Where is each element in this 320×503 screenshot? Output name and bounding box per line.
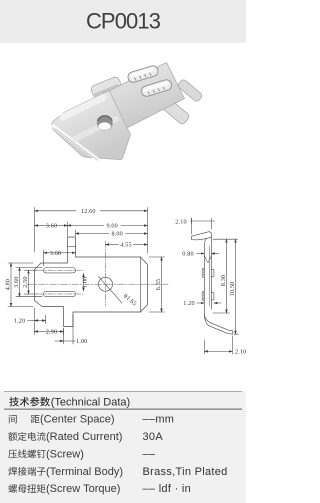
dim 3.60 slots outer (16, 267, 42, 269)
table row terminal body (8, 467, 17, 476)
svg-text:CP0013: CP0013 (86, 8, 161, 33)
dim 3.60 to top leg (35, 225, 44, 227)
svg-text:4.80: 4.80 (5, 279, 12, 290)
svg-text:(Technical Data): (Technical Data) (51, 397, 130, 409)
photo: rivet hole (97, 115, 112, 130)
side view: left emboss bump 1 (202, 268, 204, 278)
svg-text:(Screw Torque): (Screw Torque) (46, 483, 120, 495)
front view: lower emboss slot (44, 291, 76, 296)
photo: top bent leg tab (90, 76, 122, 98)
front view: lower slot centerline (39, 293, 83, 295)
side view: left emboss bump 2 (202, 291, 204, 301)
svg-text:1.20: 1.20 (14, 318, 25, 325)
photo: blade highlight streak (63, 98, 103, 118)
svg-text:(Center Space): (Center Space) (40, 414, 115, 426)
front view: hole (99, 277, 113, 291)
dim 4.80 body width (8, 262, 33, 264)
side view: right emboss bump 2 (211, 292, 214, 300)
dim 8.00 (76, 233, 110, 235)
front view: part outline (35, 237, 148, 327)
table row rated current (8, 432, 17, 441)
side view: right emboss bump 1 (211, 269, 214, 277)
svg-text:8.30: 8.30 (220, 275, 227, 286)
technical drawing (5, 208, 247, 356)
photo: terminal body (narrow mounting section) (98, 63, 185, 134)
side view: V transition mark (204, 256, 207, 263)
dim 2.90 leg offset (34, 308, 36, 335)
photo: PCB leg B (lower right stub) (160, 97, 191, 125)
side view: bent foot (bottom) (204, 309, 233, 334)
svg-text:(Rated Current): (Rated Current) (46, 431, 122, 443)
svg-text:1.00: 1.00 (76, 338, 87, 345)
side dim 2.10 bottom (204, 340, 206, 354)
svg-text:3.60: 3.60 (13, 276, 20, 287)
svg-text:––mm: ––mm (143, 414, 175, 426)
dim 9.00 (68, 225, 104, 227)
svg-text:8.00: 8.00 (111, 231, 122, 238)
dim 1.20 (45, 315, 47, 324)
product photo: tin-plated solder tab terminal (52, 63, 203, 161)
svg-text:2.10: 2.10 (175, 218, 186, 225)
side view: strip left edge (204, 239, 206, 309)
side view: strip inner line (208, 246, 210, 306)
front view: top leg bend line (68, 246, 76, 248)
svg-text:2.50: 2.50 (22, 276, 29, 287)
photo: bright sheared edge along tip (53, 126, 97, 159)
svg-text:(Terminal Body): (Terminal Body) (46, 466, 123, 478)
svg-text:–– ldf · in: –– ldf · in (143, 483, 192, 495)
svg-text:3.60: 3.60 (46, 223, 57, 230)
svg-text:Brass,Tin Plated: Brass,Tin Plated (143, 466, 228, 478)
svg-text:––: –– (143, 448, 156, 460)
svg-text:6.35: 6.35 (155, 279, 162, 290)
dim 1.00 slot pitch vertical (83, 274, 85, 292)
photo: embossed rib 1 (127, 64, 160, 83)
front view: hole vertical centerline (105, 242, 107, 307)
technical data table background (0, 391, 246, 503)
front view: upper slot centerline (39, 269, 83, 271)
svg-text:2.90: 2.90 (46, 329, 57, 336)
svg-text:9.00: 9.00 (106, 223, 117, 230)
front view: main axis centerline (27, 283, 168, 285)
side dim 10.50 (234, 333, 239, 335)
table row screw (8, 450, 17, 458)
svg-text:0.80: 0.80 (182, 251, 193, 258)
dim 6.35 blade width (149, 256, 165, 258)
table top rule (4, 390, 242, 393)
dim 4.55 blade length (106, 244, 119, 246)
svg-text:30A: 30A (143, 431, 164, 443)
svg-text:10.50: 10.50 (229, 282, 236, 297)
svg-text:2.10: 2.10 (235, 349, 246, 356)
dim 3.60 slot length (43, 250, 45, 266)
svg-text:(Screw): (Screw) (46, 448, 84, 460)
table row screw torque (8, 484, 17, 493)
svg-text:1.20: 1.20 (183, 300, 194, 307)
svg-text:3.60: 3.60 (50, 250, 61, 257)
front view: upper emboss slot (44, 268, 76, 273)
dim 1.00 leg width (63, 329, 65, 345)
svg-text:4.55: 4.55 (120, 242, 131, 249)
table row center space (9, 415, 17, 424)
photo: embossed rib 2 (140, 78, 173, 97)
dim 12.60 overall length (34, 208, 36, 253)
dim phi 1.65 hole leader (99, 277, 123, 304)
table header: technical parameters (9, 397, 19, 406)
photo: wide blade with chamfered tip (52, 91, 131, 160)
side view: bent blade (top) (191, 232, 211, 240)
side view: strip right edge (210, 237, 212, 309)
svg-text:12.60: 12.60 (81, 208, 96, 215)
side dim 2.10 top (191, 218, 193, 234)
front view: blade tip bevel line (140, 257, 142, 312)
side dim 8.30 (213, 238, 238, 240)
photo: PCB leg A (upper right stub) (177, 79, 203, 103)
title band (0, 0, 246, 43)
dim 8.00 ext (75, 230, 77, 236)
svg-text:1.00: 1.00 (82, 277, 89, 288)
table header rule (4, 409, 242, 410)
dim 2.50 slot centers (24, 269, 38, 271)
